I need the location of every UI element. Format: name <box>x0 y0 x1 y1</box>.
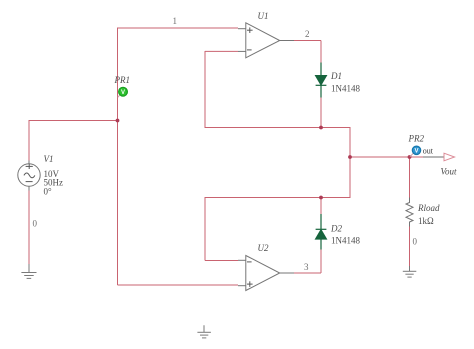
svg-text:D1: D1 <box>330 71 342 81</box>
wire Rload bottom <box>409 226 411 267</box>
wire U1 feedback vertical <box>204 51 206 128</box>
probe PR1 <box>118 87 128 97</box>
wire U1 output down to D1 <box>320 41 322 64</box>
svg-text:0: 0 <box>413 237 418 247</box>
wire D1 to upper rail <box>320 97 322 128</box>
wire right vertical between rails <box>349 127 351 198</box>
wire lower rail <box>205 197 351 199</box>
svg-text:V: V <box>121 90 125 96</box>
output connector Vout <box>423 156 444 158</box>
junction V1-PR1 node <box>116 119 120 123</box>
svg-text:0: 0 <box>33 219 38 229</box>
junction D2 lower rail <box>319 196 323 200</box>
wire U2 output up to D2 <box>320 249 322 273</box>
wire U2 feedback vertical <box>204 198 206 261</box>
svg-text:V: V <box>414 149 418 155</box>
wire U1 feedback horizontal <box>205 50 238 52</box>
op-amp U1 <box>238 23 294 58</box>
wire U1 output horizontal <box>294 40 321 42</box>
wire upper rail <box>205 127 351 129</box>
wire Rload top <box>409 157 411 198</box>
diode D2 <box>316 214 327 250</box>
wire U2 output horizontal <box>294 272 321 274</box>
svg-text:1N4148: 1N4148 <box>331 236 360 246</box>
wire bottom horizontal to U2 plus <box>118 284 239 286</box>
svg-text:U1: U1 <box>258 11 269 21</box>
svg-text:Rload: Rload <box>417 203 440 213</box>
svg-text:0°: 0° <box>44 187 53 197</box>
wire V1 to junction horizontal <box>29 120 118 122</box>
svg-text:out: out <box>423 146 434 155</box>
svg-text:3: 3 <box>304 262 309 272</box>
wire left vertical main <box>117 28 119 286</box>
wire D2 to lower rail <box>320 198 322 215</box>
svg-text:1kΩ: 1kΩ <box>418 216 434 226</box>
svg-text:1: 1 <box>173 16 178 26</box>
wire V1 top vertical <box>28 120 30 161</box>
ac source V1 <box>18 161 40 191</box>
op-amp U2 <box>238 256 294 291</box>
ground center bottom <box>197 325 211 338</box>
wire U2 feedback horizontal <box>205 260 238 262</box>
svg-text:V1: V1 <box>44 154 54 164</box>
junction Rload out <box>408 155 412 159</box>
svg-text:U2: U2 <box>258 243 269 253</box>
resistor Rload <box>406 198 413 227</box>
svg-text:PR2: PR2 <box>408 134 425 144</box>
junction output mid <box>348 155 352 159</box>
svg-text:Vout: Vout <box>441 167 458 177</box>
wire top horizontal net 1 <box>118 27 239 29</box>
wire V1 bottom vertical <box>28 190 30 265</box>
svg-text:D2: D2 <box>330 224 342 234</box>
diode D1 <box>316 63 327 98</box>
probe PR2 <box>410 146 421 157</box>
svg-text:2: 2 <box>305 29 310 39</box>
wire output horizontal net out <box>350 156 423 158</box>
svg-text:1N4148: 1N4148 <box>331 84 360 94</box>
svg-text:PR1: PR1 <box>114 75 131 85</box>
junction D1 upper rail <box>319 126 323 130</box>
ground below Rload <box>403 266 417 277</box>
ground below V1 <box>21 264 36 278</box>
